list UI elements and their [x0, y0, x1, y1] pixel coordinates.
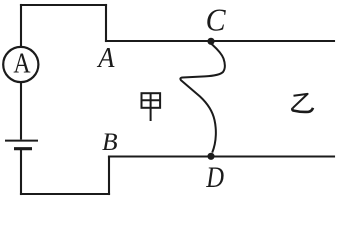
wire: left vertical lower (battery to bottom rail) — [20, 150, 22, 194]
wire: left vertical middle (ammeter to battery) — [20, 83, 22, 140]
label B (node at lower step) — [102, 127, 118, 156]
svg-text:D: D — [205, 161, 224, 194]
wire: left vertical upper (rail to ammeter) — [20, 5, 22, 47]
svg-text:C: C — [206, 3, 226, 38]
wire: step-up vertical at B corner — [108, 157, 110, 194]
wire: top rail horizontal — [21, 4, 106, 6]
region label 乙 (drawn glyph) — [292, 94, 313, 112]
ammeter U1 circle — [3, 47, 38, 82]
node D junction dot — [207, 153, 214, 160]
svg-text:A: A — [96, 41, 114, 73]
wire: upper horizontal through node C to right edge — [106, 40, 334, 42]
node C junction dot — [207, 38, 214, 45]
svg-text:B: B — [102, 127, 118, 156]
label A (node at upper step) — [96, 41, 114, 73]
wire: lower horizontal through node D to right edge — [109, 155, 334, 157]
battery cell: long positive plate — [5, 140, 38, 142]
ammeter U1 letter A — [13, 48, 30, 79]
battery cell: short negative plate — [14, 147, 32, 150]
region label 甲 (drawn glyph) — [142, 93, 161, 121]
wire: step-down vertical at A corner — [105, 5, 107, 41]
label D (lower junction) — [205, 161, 224, 194]
wire: bottom rail horizontal — [21, 193, 109, 195]
label C (upper junction) — [206, 3, 226, 38]
svg-text:A: A — [13, 48, 30, 79]
wire: irregular curved conductor from C to D — [180, 44, 224, 153]
